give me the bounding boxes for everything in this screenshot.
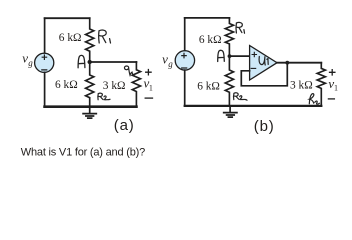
svg-text:(b): (b): [254, 118, 275, 135]
op-amp output wire (b): [277, 62, 321, 64]
wire node A to op-amp plus input (b): [229, 55, 249, 57]
svg-text:g: g: [28, 58, 33, 68]
resistor RL (a) 3 kOhm: [132, 62, 140, 107]
wire left branch lower (a): [44, 72, 46, 106]
svg-text:1: 1: [149, 83, 153, 92]
wire top rail (b): [185, 17, 230, 19]
resistor RL (b) 3 kOhm: [317, 63, 325, 106]
ground (a): [83, 107, 96, 118]
handwritten label R2 (b): [234, 93, 247, 100]
output junction dot (b): [285, 61, 289, 65]
feedback wire output to minus input (b): [241, 63, 287, 86]
handwritten label U1: [259, 57, 268, 66]
node A junction dot (b): [228, 54, 232, 58]
svg-text:6 kΩ: 6 kΩ: [55, 79, 78, 91]
svg-text:3 kΩ: 3 kΩ: [103, 80, 126, 92]
handwritten node label A (b): [218, 50, 225, 61]
resistor R1 (b) 6 kOhm: [225, 18, 233, 56]
op-amp U1: [250, 46, 277, 81]
op-amp plus input mark: [252, 52, 256, 56]
node A junction dot (a): [88, 60, 92, 64]
op-amp minus input mark: [251, 67, 256, 69]
output plus sign (b): [330, 70, 335, 75]
svg-text:What is V1 for (a) and (b)?: What is V1 for (a) and (b)?: [21, 146, 145, 158]
ground (b): [224, 106, 237, 117]
resistor R1 (a) 6 kOhm: [86, 18, 94, 62]
output minus sign (a): [145, 97, 152, 99]
handwritten label RL (b): [309, 94, 319, 105]
wire left branch lower (b): [184, 70, 186, 106]
svg-text:v: v: [22, 50, 28, 65]
voltage source vg (b): [175, 51, 194, 70]
svg-text:3 kΩ: 3 kΩ: [290, 79, 313, 91]
svg-text:6 kΩ: 6 kΩ: [197, 80, 220, 92]
voltage source vg (a): [35, 53, 54, 72]
handwritten label R1 (b): [236, 22, 244, 33]
wire bottom rail (b): [185, 105, 322, 107]
wire bottom rail (a): [45, 105, 137, 108]
wire left branch upper (a): [44, 18, 46, 53]
output plus sign (a): [146, 70, 151, 75]
wire node A to RL (a): [90, 61, 137, 63]
handwritten node label A (a): [78, 55, 85, 67]
svg-text:6 kΩ: 6 kΩ: [59, 32, 82, 44]
handwritten label R2 (a): [98, 93, 110, 100]
resistor R2 (b) 6 kOhm: [225, 56, 233, 106]
svg-text:v: v: [162, 51, 168, 66]
output minus sign (b): [328, 98, 334, 100]
handwritten label R1 (a): [99, 30, 111, 43]
handwritten label RL (a): [124, 66, 134, 75]
resistor R2 (a) 6 kOhm: [86, 62, 94, 107]
wire top rail (a): [45, 17, 90, 19]
svg-text:(a): (a): [114, 117, 135, 134]
svg-text:1: 1: [334, 84, 338, 93]
wire left branch upper (b): [184, 18, 186, 51]
svg-text:6 kΩ: 6 kΩ: [199, 34, 222, 46]
svg-text:g: g: [168, 59, 173, 69]
